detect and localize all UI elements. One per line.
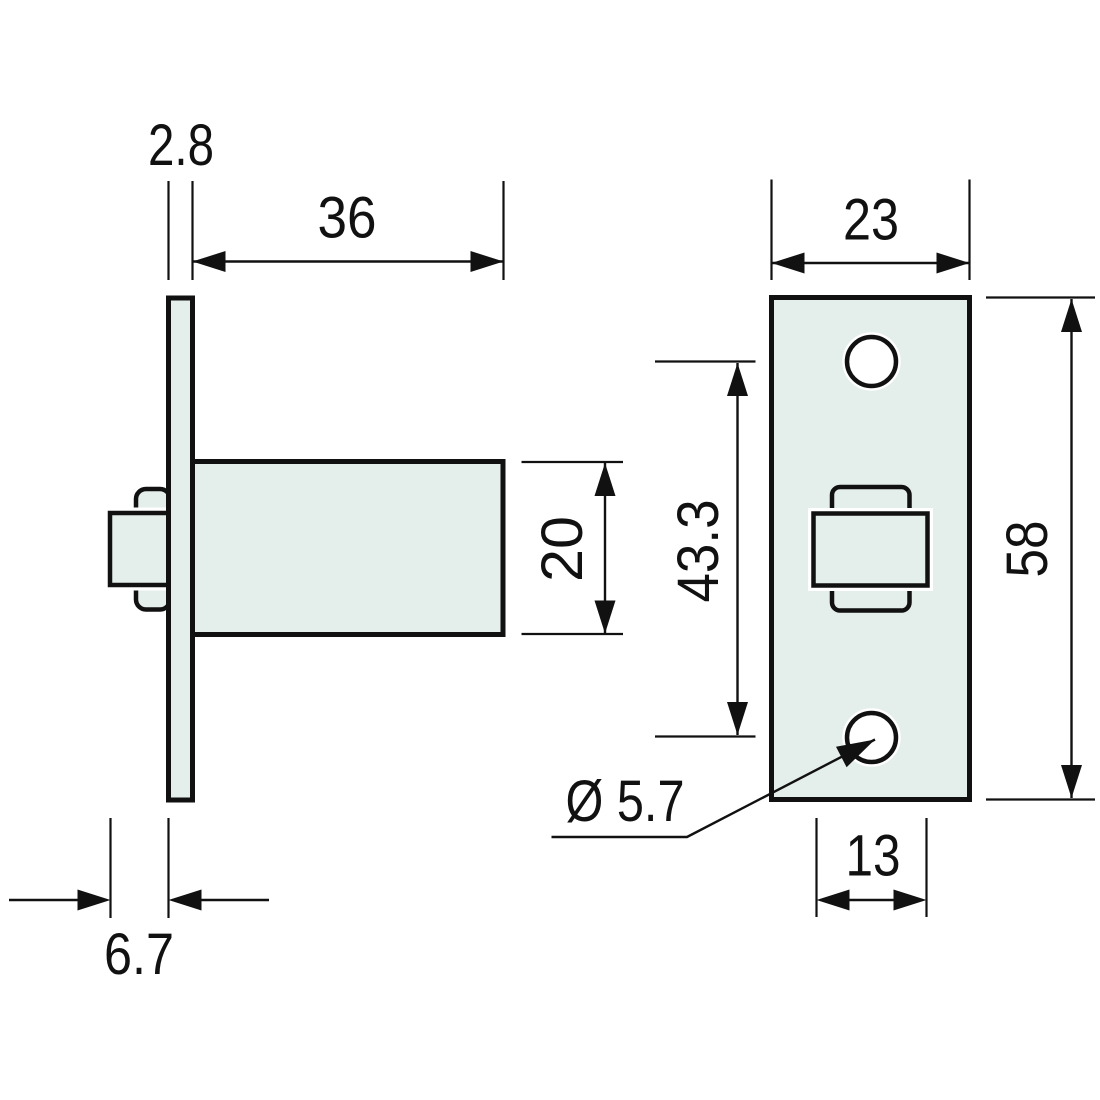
svg-text:58: 58	[995, 521, 1060, 578]
svg-text:36: 36	[318, 186, 377, 251]
dimension 43.3 line	[727, 363, 748, 735]
svg-text:43.3: 43.3	[666, 500, 731, 603]
latch bolt guide (front view, vertical rounded rect)	[832, 487, 910, 611]
dimension 6.7 extension line right	[167, 818, 169, 918]
dimension 23 extension line left	[770, 180, 772, 281]
dimension 23 extension line right	[968, 180, 970, 281]
faceplate (front view)	[772, 298, 970, 800]
svg-text:6.7: 6.7	[104, 922, 174, 987]
dimension 58 bottom tick	[986, 798, 1095, 800]
dimension 23 line	[772, 253, 970, 274]
dimension 20 top tick	[522, 461, 624, 463]
bottom screw hole	[847, 713, 896, 762]
svg-text:13: 13	[846, 824, 901, 889]
top screw hole	[847, 337, 896, 386]
dimension 43.3 bottom tick	[655, 735, 756, 737]
dimension 2.8 label	[148, 113, 214, 178]
dimension 20 label	[530, 516, 595, 582]
latch bolt head (side view)	[110, 513, 169, 585]
latch bolt step (side view)	[136, 489, 170, 610]
dimension 6.7 left arrow	[9, 890, 111, 911]
hole diameter leader line	[552, 740, 876, 838]
dimension 43.3 top tick	[655, 360, 756, 362]
dimension 58 label	[995, 521, 1060, 578]
dimension 20 bottom tick	[522, 633, 624, 635]
dimension 36 extension line right	[502, 181, 504, 280]
svg-text:23: 23	[843, 188, 899, 253]
svg-text:20: 20	[530, 516, 595, 582]
dimension 13 line	[817, 890, 927, 911]
dimension 23 label	[843, 188, 899, 253]
dimension 58 top tick	[986, 296, 1095, 298]
hole diameter label Ø 5.7	[566, 769, 685, 834]
dimension 58 line	[1061, 299, 1082, 798]
dimension 13 extension line left	[815, 818, 817, 917]
svg-text:Ø 5.7: Ø 5.7	[566, 769, 685, 834]
latch bolt head (front view, horizontal rect)	[814, 514, 928, 586]
svg-text:2.8: 2.8	[148, 113, 214, 178]
dimension 20 line	[595, 463, 616, 634]
dimension 6.7 right arrow	[169, 890, 270, 911]
dimension 2.8 extension line right	[191, 181, 193, 280]
dimension 2.8 extension line left	[167, 181, 169, 280]
dimension 6.7 label	[104, 922, 174, 987]
faceplate (side view)	[169, 298, 193, 800]
dimension 36 label	[318, 186, 377, 251]
dimension 36 line	[193, 251, 504, 272]
dimension 13 extension line right	[925, 818, 927, 917]
dimension 13 label	[846, 824, 901, 889]
latch body (side view)	[193, 462, 504, 635]
dimension 6.7 extension line left	[109, 818, 111, 918]
dimension 43.3 label	[666, 500, 731, 603]
